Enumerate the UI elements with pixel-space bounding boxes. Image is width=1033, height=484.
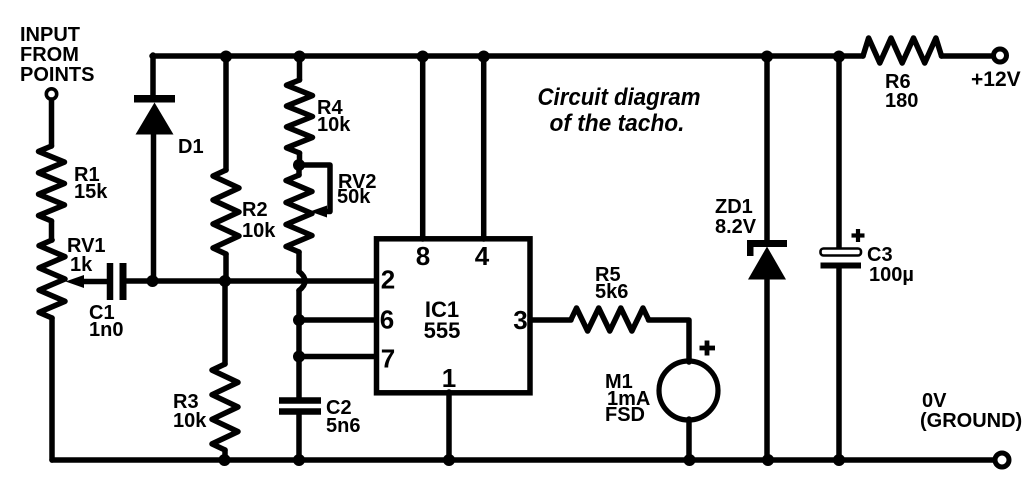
node: 0V terminal xyxy=(995,453,1009,467)
svg-text:POINTS: POINTS xyxy=(20,64,94,86)
plus sign of M1 xyxy=(700,346,716,351)
potentiometer RV2 50k xyxy=(286,175,312,252)
wire: pin6 node to pin 7 node xyxy=(296,320,302,357)
wire: C1 to IC1 pin 2 (trigger line) xyxy=(127,278,377,284)
junction: R2/R3/trigger xyxy=(219,275,231,287)
junction: rail/pin4 xyxy=(478,51,490,63)
wiper arrow of RV2 xyxy=(310,206,327,218)
wire: input terminal to R1 xyxy=(49,100,55,146)
svg-text:8: 8 xyxy=(416,241,430,271)
junction: pin 7 node xyxy=(293,351,305,363)
wire: C2 to 0V rail xyxy=(296,414,302,460)
node: INPUT terminal xyxy=(46,89,56,99)
resistor R6 180 xyxy=(863,38,942,63)
svg-text:R2: R2 xyxy=(242,199,268,221)
wire: meter to 0V rail xyxy=(686,419,692,460)
wire: RV2 bottom to crossover xyxy=(296,252,302,272)
svg-text:1: 1 xyxy=(442,363,456,393)
svg-text:INPUT: INPUT xyxy=(20,24,80,46)
svg-text:180: 180 xyxy=(885,90,918,112)
wire: RV1 bottom to 0V rail xyxy=(49,318,55,460)
junction: rail/R4 xyxy=(294,51,306,63)
junction: rail/C3 xyxy=(833,51,845,63)
wiper arrow of RV1 xyxy=(66,275,85,288)
svg-text:5n6: 5n6 xyxy=(326,415,360,437)
svg-text:0V: 0V xyxy=(922,390,947,412)
wire: pin7 node down to C2 xyxy=(296,357,302,399)
svg-text:4: 4 xyxy=(475,241,490,271)
junction: M1/0V rail xyxy=(684,454,696,466)
svg-text:ZD1: ZD1 xyxy=(715,196,753,218)
meter M1 xyxy=(659,361,718,420)
wire: IC1 pin 6 xyxy=(299,317,376,323)
svg-text:15k: 15k xyxy=(74,181,108,203)
wire: IC1 pin 3 output xyxy=(530,317,571,323)
zener diode ZD1 cathode bar xyxy=(747,240,787,247)
svg-text:555: 555 xyxy=(424,318,461,343)
svg-text:5k6: 5k6 xyxy=(595,281,628,303)
junction: ZD1/0V rail xyxy=(762,454,774,466)
svg-text:FROM: FROM xyxy=(20,44,79,66)
wire: IC1 pin 1 to 0V rail xyxy=(446,392,452,460)
svg-text:D1: D1 xyxy=(178,136,204,158)
junction: D1/trigger xyxy=(147,275,159,287)
wire: R2 to trigger line xyxy=(223,254,229,281)
wire: rail to C3 xyxy=(836,56,842,249)
junction: rail/ZD1 xyxy=(761,51,773,63)
svg-text:(GROUND): (GROUND) xyxy=(920,410,1022,432)
svg-text:3: 3 xyxy=(513,305,527,335)
node: +12V terminal xyxy=(994,49,1007,62)
wire: IC1 pin 7 xyxy=(299,354,376,360)
svg-text:10k: 10k xyxy=(317,114,351,136)
capacitor C3 100u positive plate xyxy=(821,249,862,256)
svg-text:7: 7 xyxy=(381,344,395,374)
svg-text:6: 6 xyxy=(380,305,394,335)
svg-text:of the tacho.: of the tacho. xyxy=(550,110,685,137)
capacitor C3 negative plate xyxy=(821,263,862,269)
wire: bottom 0V rail xyxy=(52,457,993,463)
svg-text:Circuit diagram: Circuit diagram xyxy=(538,84,701,111)
potentiometer RV1 1k xyxy=(39,240,65,318)
resistor R4 10k xyxy=(297,56,303,80)
svg-text:50k: 50k xyxy=(337,186,371,208)
svg-text:10k: 10k xyxy=(242,220,276,242)
svg-text:100µ: 100µ xyxy=(869,264,914,286)
svg-text:+12V: +12V xyxy=(971,68,1021,91)
wire: R1 to RV1 xyxy=(49,221,55,240)
wire: top +V rail xyxy=(152,53,863,59)
svg-text:1k: 1k xyxy=(70,254,93,276)
svg-text:2: 2 xyxy=(381,265,395,295)
capacitor C2 5n6 xyxy=(279,397,321,404)
wire: IC1 pin 8 supply xyxy=(420,56,426,239)
svg-text:10k: 10k xyxy=(173,410,207,432)
svg-text:1n0: 1n0 xyxy=(89,319,123,341)
wiper link of RV2 xyxy=(299,165,330,212)
wire: C3 to 0V rail xyxy=(836,267,842,460)
wire: rail corner down to D1 xyxy=(150,55,156,95)
wire crossover hop over trigger line xyxy=(299,272,305,291)
svg-text:FSD: FSD xyxy=(605,404,645,426)
resistor R2 10k xyxy=(213,170,239,254)
junction: C2/0V rail xyxy=(293,454,305,466)
plus sign of C3 xyxy=(852,233,865,237)
wire: rail to ZD1 cathode xyxy=(764,56,770,242)
diode D1 xyxy=(134,95,175,103)
wire: ZD1 anode to 0V rail xyxy=(764,278,770,460)
zener diode ZD1 triangle xyxy=(748,247,786,280)
wire: hop down to pin 6 node xyxy=(296,291,302,321)
junction: pin 6 node xyxy=(293,314,305,326)
op-amp/timer IC1 555 box xyxy=(377,239,531,393)
junction: rail/pin8 xyxy=(417,51,429,63)
wire: R5 to meter xyxy=(649,320,690,362)
resistor R5 5k6 xyxy=(571,308,649,331)
wire: wiper to C1 xyxy=(80,279,107,285)
resistor R1 15k xyxy=(39,146,65,221)
junction: rail/R2 xyxy=(220,51,232,63)
capacitor C1 1n0 xyxy=(107,263,114,300)
junction: R3/0V rail xyxy=(219,454,231,466)
wire: IC1 pin 4 reset xyxy=(481,56,487,239)
wire: D1 anode down to trigger line xyxy=(151,133,157,281)
resistor R3 10k xyxy=(222,281,228,364)
wire: rail to R2 xyxy=(223,56,229,170)
svg-text:8.2V: 8.2V xyxy=(715,216,757,238)
svg-text:C3: C3 xyxy=(867,244,893,266)
junction: R4/RV2 xyxy=(293,159,305,171)
junction: pin1/0V rail xyxy=(443,454,455,466)
junction: C3/0V rail xyxy=(833,454,845,466)
